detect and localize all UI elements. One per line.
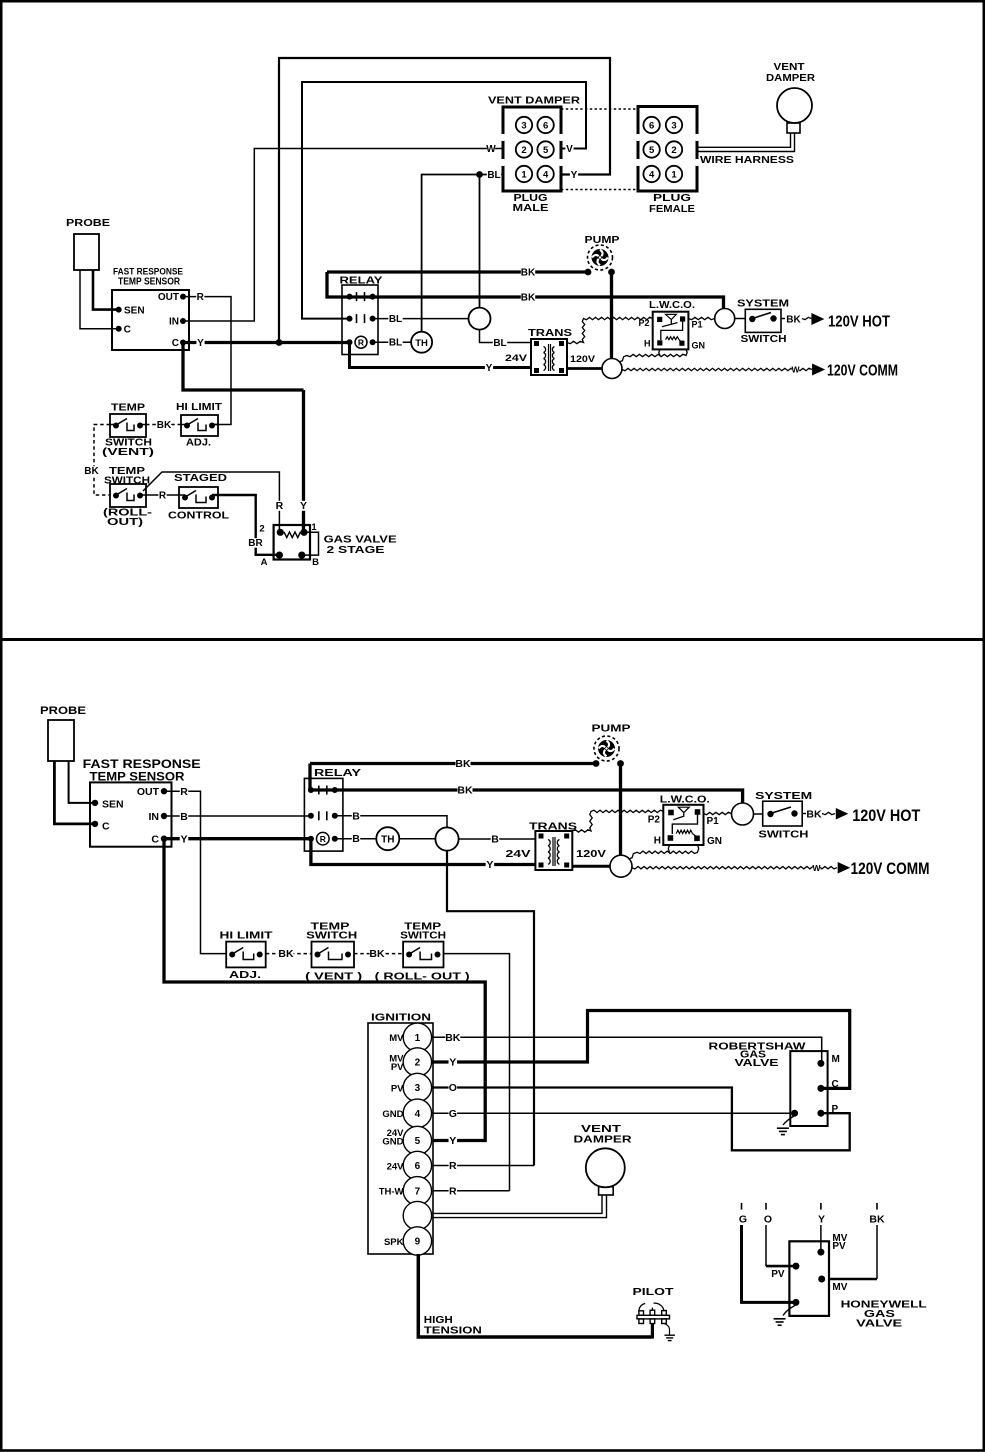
svg-text:BK: BK [278,948,294,960]
svg-text:BK: BK [786,315,801,326]
svg-text:BL: BL [487,170,500,181]
svg-text:SWITCH: SWITCH [741,334,787,345]
svg-text:RELAY: RELAY [314,767,361,779]
svg-text:9: 9 [415,1237,421,1248]
svg-text:BK: BK [806,809,822,821]
svg-text:W: W [486,144,496,155]
svg-text:7: 7 [415,1186,421,1197]
svg-text:BR: BR [248,538,263,549]
svg-text:BL: BL [389,314,402,325]
svg-text:OUT: OUT [137,786,160,798]
svg-text:WIRE HARNESS: WIRE HARNESS [700,155,794,166]
svg-text:1: 1 [521,169,527,180]
svg-text:CONTROL: CONTROL [168,511,229,522]
svg-text:L.W.C.O.: L.W.C.O. [649,300,695,311]
svg-text:BK: BK [521,268,536,279]
svg-text:SWITCH: SWITCH [758,829,808,841]
svg-text:PROBE: PROBE [66,218,110,229]
svg-text:TRANS: TRANS [528,328,572,339]
svg-text:SPK: SPK [384,1237,404,1248]
svg-text:FEMALE: FEMALE [649,204,695,215]
svg-text:MV: MV [832,1282,847,1293]
svg-text:BK: BK [521,293,536,304]
svg-text:VENT: VENT [774,62,805,73]
svg-text:W: W [791,365,800,375]
svg-text:O: O [764,1214,772,1226]
svg-text:R: R [197,292,205,303]
svg-text:TEMP SENSOR: TEMP SENSOR [90,770,185,784]
svg-text:TH: TH [415,338,428,349]
svg-text:G: G [449,1108,457,1120]
svg-text:PLUG: PLUG [653,193,691,204]
svg-text:PUMP: PUMP [585,235,620,246]
svg-text:HI LIMIT: HI LIMIT [176,402,222,413]
svg-text:G: G [739,1214,747,1226]
svg-text:3: 3 [415,1083,421,1094]
svg-text:2: 2 [521,145,526,156]
svg-text:A: A [261,557,268,568]
svg-text:Y: Y [486,859,493,871]
svg-text:TH-W: TH-W [379,1187,404,1198]
svg-text:Y: Y [818,1214,825,1226]
svg-text:TEMP: TEMP [111,403,145,414]
svg-text:BL: BL [493,338,506,349]
svg-text:PV: PV [771,1269,785,1280]
svg-text:P1: P1 [692,320,703,330]
svg-text:SYSTEM: SYSTEM [755,790,812,802]
svg-text:GND: GND [382,1109,403,1120]
svg-text:IN: IN [169,317,179,328]
svg-text:P1: P1 [707,816,720,827]
svg-text:P2: P2 [638,318,649,328]
svg-text:PV: PV [391,1083,404,1094]
svg-text:4: 4 [649,169,655,180]
svg-text:B: B [312,557,319,568]
svg-text:BK: BK [157,420,172,431]
svg-text:BK: BK [455,758,471,770]
svg-text:24V: 24V [506,848,531,860]
svg-text:IGNITION: IGNITION [371,1012,431,1024]
svg-text:HI LIMIT: HI LIMIT [220,930,274,942]
svg-text:MV: MV [389,1033,404,1044]
svg-text:SEN: SEN [124,306,145,317]
svg-text:6: 6 [415,1161,421,1172]
svg-text:120V: 120V [576,848,606,860]
svg-text:SWITCH: SWITCH [400,930,446,942]
svg-text:R: R [449,1160,457,1172]
svg-text:BK: BK [869,1214,885,1226]
svg-text:BK: BK [84,466,99,477]
svg-text:3: 3 [671,120,676,131]
svg-text:6: 6 [543,120,548,131]
svg-text:V: V [566,144,573,155]
svg-text:Y: Y [300,500,307,512]
svg-text:( VENT ): ( VENT ) [305,970,362,982]
svg-text:TH: TH [381,835,394,846]
svg-text:C: C [102,821,110,833]
svg-text:120V: 120V [570,354,596,365]
svg-text:120V HOT: 120V HOT [828,314,890,331]
svg-text:120V HOT: 120V HOT [852,807,920,825]
svg-text:C: C [172,338,179,349]
svg-text:R: R [358,338,364,348]
svg-text:DAMPER: DAMPER [766,73,816,84]
svg-text:VALVE: VALVE [735,1057,779,1069]
svg-text:PUMP: PUMP [592,723,631,735]
svg-text:GN: GN [692,341,706,351]
svg-text:DAMPER: DAMPER [574,1134,633,1146]
svg-text:2: 2 [415,1058,421,1069]
svg-text:B: B [491,834,499,846]
svg-text:(VENT): (VENT) [102,447,154,458]
svg-text:R: R [159,491,167,502]
svg-text:5: 5 [543,145,549,156]
svg-text:PV: PV [391,1062,404,1073]
svg-text:P2: P2 [648,815,661,826]
svg-text:5: 5 [649,145,655,156]
svg-text:Y: Y [486,363,493,374]
svg-text:B: B [180,811,188,823]
svg-text:GN: GN [707,836,722,847]
svg-text:H: H [654,836,661,847]
svg-text:R: R [180,786,188,798]
svg-text:L.W.C.O.: L.W.C.O. [660,794,710,806]
svg-text:TEMP SENSOR: TEMP SENSOR [118,277,181,288]
svg-text:2: 2 [671,145,676,156]
svg-text:P: P [832,1104,839,1115]
svg-text:MALE: MALE [513,203,549,214]
svg-text:R: R [276,500,284,512]
svg-text:Y: Y [180,833,187,845]
svg-text:BK: BK [457,785,473,797]
svg-text:6: 6 [649,120,654,131]
svg-text:B: B [352,811,360,823]
svg-text:M: M [832,1054,840,1065]
svg-text:VENT DAMPER: VENT DAMPER [488,96,581,107]
svg-text:C: C [124,325,131,336]
svg-text:BK: BK [369,948,385,960]
svg-text:Y: Y [197,338,204,349]
svg-text:4: 4 [415,1109,421,1120]
svg-text:Y: Y [449,1135,456,1147]
svg-text:1: 1 [415,1033,421,1044]
svg-text:GND: GND [382,1136,403,1147]
svg-text:C: C [832,1079,839,1090]
svg-text:ADJ.: ADJ. [229,969,261,981]
svg-text:TENSION: TENSION [424,1325,482,1337]
svg-text:PV: PV [832,1241,846,1252]
svg-text:120V COMM: 120V COMM [827,363,898,380]
svg-text:Y: Y [449,1057,456,1069]
svg-text:R: R [449,1185,457,1197]
svg-text:VALVE: VALVE [856,1318,902,1330]
svg-text:IN: IN [149,811,160,823]
svg-text:BL: BL [389,338,402,349]
svg-text:2 STAGE: 2 STAGE [327,545,385,556]
svg-text:H: H [644,339,651,349]
svg-text:PILOT: PILOT [633,1286,675,1298]
svg-text:SYSTEM: SYSTEM [737,299,789,310]
svg-text:SEN: SEN [102,799,124,811]
svg-text:5: 5 [415,1136,421,1147]
svg-text:GAS VALVE: GAS VALVE [324,534,397,546]
svg-text:Y: Y [571,170,578,181]
svg-text:( ROLL- OUT ): ( ROLL- OUT ) [375,970,470,982]
svg-text:B: B [352,833,360,845]
svg-text:STAGED: STAGED [174,473,227,484]
svg-text:OUT): OUT) [107,517,143,528]
svg-text:SWITCH: SWITCH [306,930,357,942]
svg-text:3: 3 [521,120,526,131]
svg-text:PROBE: PROBE [40,705,86,717]
svg-text:1: 1 [311,522,317,533]
svg-text:24V: 24V [387,1161,405,1172]
svg-text:OUT: OUT [158,292,179,303]
svg-text:4: 4 [543,169,549,180]
svg-text:120V COMM: 120V COMM [851,860,930,878]
svg-text:R: R [320,834,326,844]
svg-text:W: W [812,863,821,873]
svg-text:1: 1 [671,169,677,180]
svg-text:ADJ.: ADJ. [186,438,211,449]
svg-text:2: 2 [259,524,264,535]
svg-text:O: O [449,1082,457,1094]
svg-text:C: C [151,834,159,846]
svg-text:BK: BK [445,1032,461,1044]
svg-text:24V: 24V [505,353,528,364]
